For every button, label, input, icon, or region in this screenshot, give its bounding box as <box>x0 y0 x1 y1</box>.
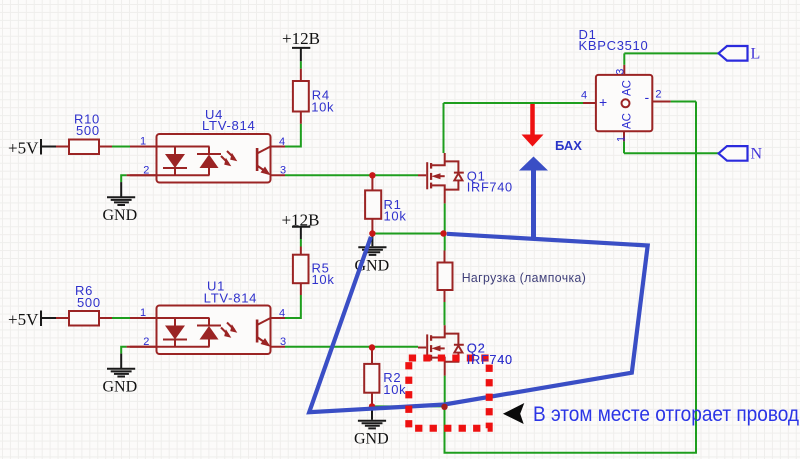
svg-text:10k: 10k <box>384 209 407 224</box>
svg-text:GND: GND <box>103 207 138 224</box>
svg-text:AC: AC <box>622 80 634 96</box>
svg-text:2: 2 <box>143 336 149 348</box>
svg-text:1: 1 <box>616 136 628 142</box>
svg-text:4: 4 <box>279 136 285 148</box>
svg-text:-: - <box>645 89 650 105</box>
svg-text:LTV-814: LTV-814 <box>204 291 258 306</box>
svg-text:10k: 10k <box>312 272 335 287</box>
svg-text:1: 1 <box>140 136 146 148</box>
svg-text:+5V: +5V <box>8 310 39 329</box>
svg-text:GND: GND <box>354 431 389 448</box>
svg-text:3: 3 <box>280 336 286 348</box>
svg-text:N: N <box>751 146 763 163</box>
svg-text:Нагрузка (лампочка): Нагрузка (лампочка) <box>462 271 587 285</box>
svg-text:В этом месте отгорает провод: В этом месте отгорает провод <box>533 403 799 426</box>
svg-text:1: 1 <box>140 307 146 319</box>
svg-text:3: 3 <box>280 165 286 177</box>
svg-text:+: + <box>599 94 607 110</box>
svg-text:3: 3 <box>615 69 627 75</box>
svg-text:+5V: +5V <box>8 139 39 158</box>
svg-text:IRF740: IRF740 <box>467 180 513 195</box>
svg-text:IRF740: IRF740 <box>467 352 513 367</box>
svg-text:500: 500 <box>76 123 100 138</box>
svg-text:2: 2 <box>655 89 661 101</box>
svg-text:БАХ: БАХ <box>555 138 582 153</box>
svg-text:2: 2 <box>143 164 149 176</box>
svg-text:10k: 10k <box>311 99 334 114</box>
svg-text:10k: 10k <box>383 382 406 397</box>
svg-text:GND: GND <box>103 379 138 396</box>
svg-text:500: 500 <box>77 295 101 310</box>
svg-text:4: 4 <box>279 307 285 319</box>
svg-text:+12В: +12В <box>282 29 320 48</box>
svg-text:KBPC3510: KBPC3510 <box>579 38 649 53</box>
svg-text:LTV-814: LTV-814 <box>202 118 256 133</box>
svg-text:L: L <box>751 46 761 63</box>
svg-text:AC: AC <box>622 113 634 129</box>
svg-text:4: 4 <box>581 90 587 102</box>
